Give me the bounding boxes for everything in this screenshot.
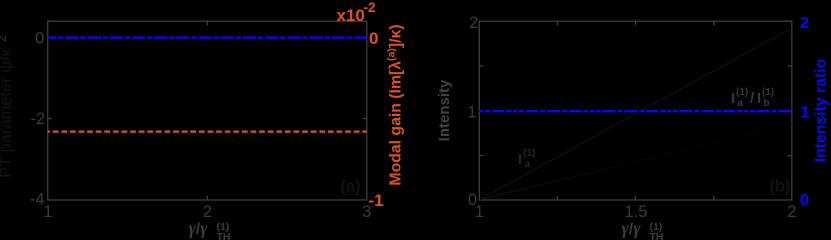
left plot frame (panel a) xyxy=(48,21,367,200)
right plot x ticks xyxy=(557,21,713,200)
svg-text:-2: -2 xyxy=(364,0,376,15)
svg-text:(1): (1) xyxy=(736,87,748,98)
panel label (b) xyxy=(769,178,790,196)
svg-text:Modal gain (Im[λ(a)]/κ): Modal gain (Im[λ(a)]/κ) xyxy=(386,24,405,185)
panel label (a) xyxy=(340,178,360,196)
svg-text:a: a xyxy=(525,159,531,170)
left plot x axis label gamma/gamma_TH^(1) xyxy=(189,218,231,240)
right plot left axis label Intensity xyxy=(436,79,453,141)
svg-text:I: I xyxy=(731,90,735,107)
svg-text:1: 1 xyxy=(43,203,52,221)
left plot x tick labels 1 2 3 xyxy=(43,203,371,221)
faint dark intensity line I_b (steep) xyxy=(480,28,792,199)
left plot x ticks xyxy=(206,21,208,200)
right orange axis tick labels 0 and -1 xyxy=(369,29,384,210)
svg-text:I: I xyxy=(518,151,522,168)
right plot x axis label gamma/gamma_TH^(1) xyxy=(622,218,664,240)
x10^-2 scale label (orange) xyxy=(337,0,376,25)
svg-text:-1: -1 xyxy=(369,191,384,210)
svg-text:(a): (a) xyxy=(340,178,360,196)
svg-text:-4: -4 xyxy=(30,191,45,209)
svg-text:a: a xyxy=(738,98,744,109)
left plot y axis label (dark) PT parameter xyxy=(0,35,15,178)
svg-text:-2: -2 xyxy=(31,110,46,128)
blue dash-dot intensity ratio line, panel b xyxy=(479,110,792,112)
svg-text:TH: TH xyxy=(217,231,231,240)
svg-text:1: 1 xyxy=(475,203,484,221)
svg-text:x10: x10 xyxy=(337,6,365,25)
svg-text:0: 0 xyxy=(800,190,809,209)
right plot frame (panel b) xyxy=(479,21,792,200)
svg-text:γ/γ: γ/γ xyxy=(622,218,642,238)
svg-text:1: 1 xyxy=(800,102,809,121)
right plot right axis label Intensity ratio (blue) xyxy=(813,58,830,162)
svg-text:PT parameter ψ/κ: PT parameter ψ/κ xyxy=(0,47,15,178)
svg-text:2: 2 xyxy=(787,203,796,221)
blue dashed line Im[lambda]=0, panel a xyxy=(48,36,367,38)
svg-text:1: 1 xyxy=(467,103,476,121)
svg-text:0: 0 xyxy=(35,30,44,48)
right plot right axis blue tick labels 2 1 0 xyxy=(800,13,810,209)
annotation I_a^(1)/I_b^(1) (gray) xyxy=(731,87,774,109)
right orange axis label Modal gain (Im[lambda^(a)]/kappa) xyxy=(386,24,405,185)
svg-text:γ/γ: γ/γ xyxy=(189,218,209,238)
svg-text:I: I xyxy=(757,90,761,107)
svg-text:2: 2 xyxy=(469,14,478,32)
svg-text:2: 2 xyxy=(0,35,9,42)
orange dashed line modal gain, panel a xyxy=(48,130,367,132)
svg-text:0: 0 xyxy=(369,29,378,48)
left plot y ticks xyxy=(48,38,367,119)
svg-text:b: b xyxy=(764,98,770,109)
right plot x tick labels 1 1.5 2 xyxy=(475,203,797,221)
svg-text:(b): (b) xyxy=(769,178,790,196)
faint dark intensity line I_a (shallow) xyxy=(480,124,792,199)
svg-text:(1): (1) xyxy=(523,148,535,159)
left plot y tick labels 0 -2 -4 xyxy=(30,30,45,209)
svg-text:TH: TH xyxy=(650,231,664,240)
svg-text:Intensity ratio: Intensity ratio xyxy=(813,58,830,162)
svg-text:Intensity: Intensity xyxy=(436,79,453,141)
right plot y ticks xyxy=(479,66,792,156)
annotation I_a^(1) (dark) xyxy=(518,148,535,170)
svg-text:(1): (1) xyxy=(762,87,774,98)
svg-text:2: 2 xyxy=(800,13,809,32)
right plot left y tick labels 2 1 0 xyxy=(467,14,478,209)
